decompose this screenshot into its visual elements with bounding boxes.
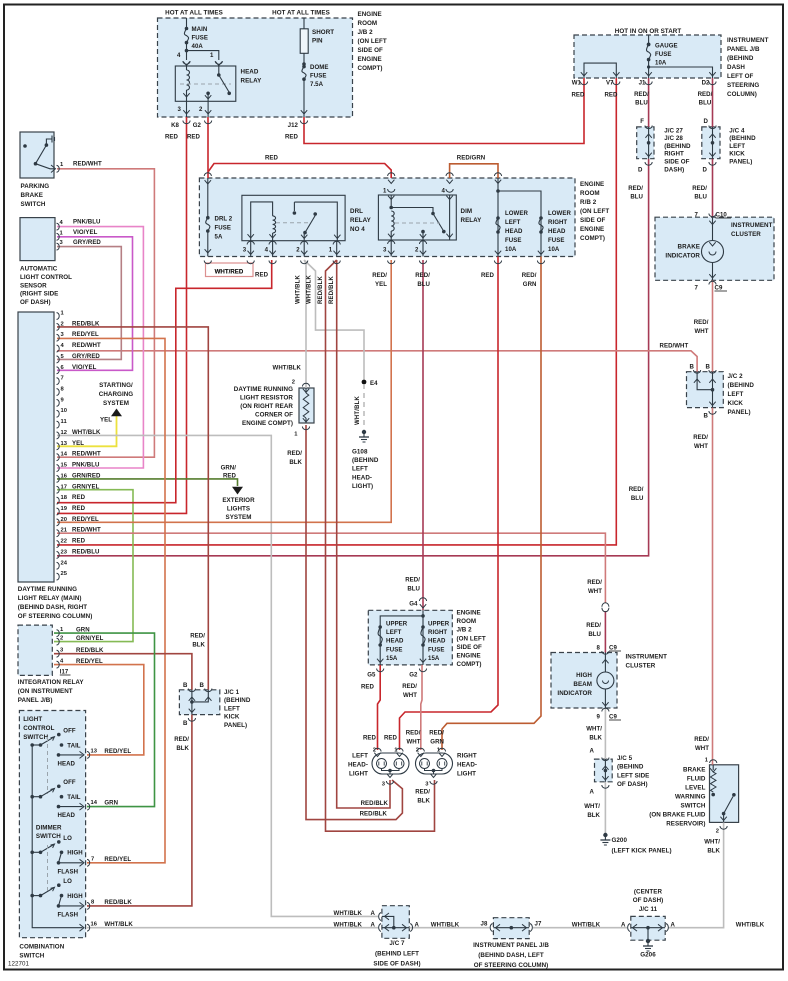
- svg-text:OFF: OFF: [63, 728, 76, 735]
- svg-text:G5: G5: [367, 672, 376, 679]
- DIM relay interior: [390, 195, 392, 208]
- inline connector on feed: [602, 603, 609, 607]
- svg-text:ENGINE: ENGINE: [358, 56, 382, 63]
- svg-text:2: 2: [61, 321, 64, 327]
- svg-text:RED/BLK: RED/BLK: [72, 320, 100, 327]
- wire WHT/BLK J/C 7 to instrument panel J/B J8: [409, 927, 489, 929]
- svg-text:BLU: BLU: [699, 100, 712, 107]
- svg-text:VIO/YEL: VIO/YEL: [73, 229, 98, 236]
- wire PNK/BLU sensor pin4 to pin 15: [57, 227, 143, 468]
- svg-text:RED: RED: [165, 134, 179, 141]
- svg-text:RED: RED: [604, 92, 618, 99]
- svg-text:A: A: [671, 922, 676, 929]
- J/C 27 J/C 28 internals: [645, 134, 651, 138]
- wire RED/BLK DRL relay pin 1 to left headlight pin 3: [337, 260, 390, 808]
- svg-text:1: 1: [329, 247, 333, 254]
- svg-text:BLU: BLU: [417, 281, 430, 288]
- wire RED lower left head fuse to left headlight pin 1: [400, 257, 499, 751]
- svg-text:FUSE: FUSE: [192, 35, 208, 42]
- wire YEL pin 13 to starting/charging arrow: [57, 411, 117, 446]
- svg-text:GRN/YEL: GRN/YEL: [72, 483, 100, 490]
- svg-text:RED/: RED/: [693, 434, 708, 441]
- svg-text:COMPT): COMPT): [580, 235, 605, 242]
- wire RED/BLK J/C 1 bottom to comb sw pin 8: [87, 715, 192, 906]
- wire WHT/BLK ground rail comb sw pin16 to J/C 7: [87, 927, 378, 929]
- svg-text:RED/: RED/: [634, 91, 649, 98]
- engine room J/B 2 box (lower): [368, 610, 452, 665]
- svg-text:PANEL J/B): PANEL J/B): [18, 697, 53, 704]
- svg-text:RED/: RED/: [629, 486, 644, 493]
- wire RED/YEL DIM relay pin 3 to pin 20: [57, 260, 391, 522]
- svg-text:20: 20: [61, 517, 68, 523]
- svg-text:WHT: WHT: [694, 328, 708, 335]
- svg-text:BLK: BLK: [192, 642, 205, 649]
- svg-text:SIDE OF: SIDE OF: [358, 47, 383, 54]
- svg-text:FUSE: FUSE: [548, 237, 564, 244]
- DRL relay bottom pins 3 4 2 1: [250, 241, 252, 257]
- svg-text:YEL: YEL: [100, 417, 112, 424]
- svg-text:40A: 40A: [192, 43, 204, 50]
- wire RED/BLK resistor pin1 to left headlight pin 3: [306, 425, 402, 820]
- svg-text:BRAKE: BRAKE: [678, 244, 700, 251]
- svg-text:B: B: [704, 413, 709, 420]
- svg-text:RED/WHT: RED/WHT: [72, 527, 101, 534]
- svg-text:OF DASH): OF DASH): [617, 781, 648, 788]
- svg-text:HEAD: HEAD: [505, 228, 523, 235]
- svg-text:J/B 2: J/B 2: [457, 627, 473, 634]
- svg-text:INSTRUMENT: INSTRUMENT: [727, 37, 769, 44]
- svg-text:1: 1: [210, 52, 214, 59]
- wire RED/BLU DIM relay pin 2 to G4: [422, 260, 424, 610]
- svg-text:RELAY: RELAY: [461, 217, 483, 224]
- svg-text:DRL 2: DRL 2: [215, 216, 233, 223]
- svg-text:RED/: RED/: [628, 185, 643, 192]
- svg-text:WARNING: WARNING: [675, 794, 706, 801]
- svg-text:RED/YEL: RED/YEL: [76, 658, 103, 665]
- svg-text:BRAKE: BRAKE: [683, 767, 705, 774]
- wire RED/BLU J1 through J/C 27/28 down to pin 23: [648, 78, 650, 127]
- automatic light control sensor box: [20, 218, 55, 261]
- svg-text:LIGHTS: LIGHTS: [227, 506, 250, 513]
- svg-text:RED: RED: [363, 735, 377, 742]
- svg-text:COMBINATION: COMBINATION: [19, 944, 64, 951]
- svg-text:GAUGE: GAUGE: [655, 43, 678, 50]
- svg-text:B: B: [200, 682, 205, 689]
- svg-text:LIGHT RELAY (MAIN): LIGHT RELAY (MAIN): [18, 595, 82, 602]
- svg-text:(ON LEFT: (ON LEFT: [580, 208, 609, 215]
- svg-text:(BEHIND: (BEHIND: [728, 382, 755, 389]
- svg-text:WHT/BLK: WHT/BLK: [307, 274, 313, 304]
- svg-text:INSTRUMENT PANEL J/B: INSTRUMENT PANEL J/B: [473, 942, 549, 949]
- DRL 2 FUSE 5A: [207, 178, 209, 218]
- svg-text:RED/: RED/: [415, 272, 430, 279]
- svg-text:BLK: BLK: [289, 459, 302, 466]
- svg-text:SENSOR: SENSOR: [20, 282, 47, 289]
- wire RED/YEL comb sw pin 7 up to pin 3: [57, 338, 165, 862]
- ground G108: [362, 430, 366, 434]
- svg-text:INDICATOR: INDICATOR: [665, 253, 700, 260]
- high beam indicator bulb: [604, 653, 606, 673]
- svg-text:HEAD: HEAD: [548, 228, 566, 235]
- svg-text:ROOM: ROOM: [580, 190, 600, 197]
- DIM relay bottom pins 3 2: [390, 240, 392, 257]
- svg-text:RED/BLU: RED/BLU: [72, 548, 100, 555]
- svg-text:RED/: RED/: [174, 736, 189, 743]
- svg-text:ENGINE: ENGINE: [580, 226, 604, 233]
- svg-text:24: 24: [61, 560, 68, 566]
- svg-text:J/C 11: J/C 11: [639, 906, 658, 913]
- head relay coil: [186, 66, 188, 70]
- upper right head fuse 15A: [421, 625, 425, 629]
- wire WHT/BLK high-beam cluster pin 9 to J/C 5: [604, 708, 606, 759]
- svg-text:INTEGRATION RELAY: INTEGRATION RELAY: [18, 679, 85, 686]
- svg-text:LEFT: LEFT: [352, 466, 368, 473]
- parking brake switch internals: [23, 144, 27, 148]
- svg-text:PANEL): PANEL): [224, 722, 247, 729]
- wire RED/WHT parking brake switch to pin 14: [57, 169, 154, 457]
- svg-text:14: 14: [61, 452, 68, 458]
- svg-text:LEFT SIDE: LEFT SIDE: [617, 772, 649, 779]
- svg-text:SWITCH: SWITCH: [19, 953, 44, 960]
- svg-text:13: 13: [91, 749, 98, 755]
- svg-text:G2: G2: [409, 672, 418, 679]
- svg-text:NO 4: NO 4: [350, 226, 365, 233]
- svg-text:C9: C9: [609, 645, 617, 652]
- svg-text:DASH: DASH: [727, 64, 745, 71]
- svg-text:J/B 2: J/B 2: [358, 29, 374, 36]
- wire K8 RED from head relay pin3 down to DRL main relay pin 19: [57, 117, 187, 513]
- svg-text:GRN: GRN: [430, 739, 444, 746]
- svg-text:LIGHT RESISTOR: LIGHT RESISTOR: [240, 395, 293, 402]
- svg-text:TAIL: TAIL: [67, 794, 81, 801]
- svg-text:RED/: RED/: [402, 683, 417, 690]
- svg-text:TAIL: TAIL: [67, 742, 81, 749]
- svg-text:SWITCH: SWITCH: [21, 201, 46, 208]
- J/C 2 internals: [694, 379, 700, 383]
- svg-text:FUSE: FUSE: [505, 237, 521, 244]
- svg-text:3: 3: [178, 106, 182, 113]
- svg-text:SHORT: SHORT: [312, 29, 334, 36]
- svg-text:LEFT: LEFT: [352, 753, 368, 760]
- svg-text:GRN/RED: GRN/RED: [72, 472, 101, 479]
- wire RED/BLK integration pin 3 to J/C 1 left pin: [54, 654, 192, 690]
- svg-text:14: 14: [91, 800, 98, 806]
- wire WHT/BLK brake fluid switch pin2 to J/C 11: [669, 822, 724, 927]
- svg-text:4: 4: [442, 188, 446, 195]
- svg-text:GRY/RED: GRY/RED: [72, 353, 100, 360]
- svg-text:WHT: WHT: [694, 443, 708, 450]
- DRL relay no 4 rect: [242, 195, 345, 240]
- svg-text:BLU: BLU: [588, 631, 601, 638]
- svg-text:GRN: GRN: [523, 281, 537, 288]
- svg-text:7.5A: 7.5A: [310, 81, 324, 88]
- feed to D2: [649, 67, 713, 78]
- wire RED/BLK main pin 2 down to J/C 1 right pin: [57, 327, 208, 690]
- svg-text:J/C 4: J/C 4: [729, 127, 745, 134]
- svg-text:V7: V7: [606, 80, 614, 87]
- wire WHT/BLK J/C 5 to G200: [604, 782, 606, 833]
- svg-text:PNK/BLU: PNK/BLU: [73, 219, 101, 226]
- sensor pins 4 1 3: [57, 223, 60, 230]
- main fuse 40A: [186, 18, 188, 29]
- svg-text:HEAD: HEAD: [58, 812, 76, 819]
- svg-text:WHT/: WHT/: [704, 839, 720, 846]
- ground G200: [603, 833, 607, 837]
- svg-text:B: B: [706, 363, 711, 370]
- svg-text:R/B 2: R/B 2: [580, 199, 597, 206]
- svg-text:(BEHIND: (BEHIND: [727, 55, 754, 62]
- svg-text:HEAD: HEAD: [386, 638, 404, 645]
- svg-text:FLASH: FLASH: [58, 911, 79, 918]
- svg-text:DAYTIME RUNNING: DAYTIME RUNNING: [18, 586, 77, 593]
- svg-text:A: A: [590, 748, 595, 755]
- mechanical dashed links: [47, 737, 49, 794]
- svg-text:MAIN: MAIN: [192, 26, 208, 33]
- wire VIO/YEL sensor pin1 to pin 6: [57, 237, 133, 370]
- wire RED DRL relay pin4 to pin 18: [57, 260, 272, 503]
- svg-text:FUSE: FUSE: [386, 646, 402, 653]
- svg-text:RED/: RED/: [587, 579, 602, 586]
- svg-text:DOME: DOME: [310, 64, 328, 71]
- svg-text:G2: G2: [193, 122, 202, 129]
- J/C 1 box: [179, 690, 219, 715]
- svg-text:LIGHT): LIGHT): [352, 483, 373, 490]
- svg-text:J/C 7: J/C 7: [389, 940, 405, 947]
- svg-text:16: 16: [61, 473, 68, 479]
- svg-text:GRN/YEL: GRN/YEL: [76, 635, 104, 642]
- svg-text:15A: 15A: [386, 655, 398, 662]
- svg-text:WHT/BLK: WHT/BLK: [72, 429, 101, 436]
- svg-text:(BEHIND DASH, LEFT: (BEHIND DASH, LEFT: [478, 952, 544, 959]
- svg-text:19: 19: [61, 506, 68, 512]
- svg-text:LEFT: LEFT: [505, 219, 521, 226]
- svg-text:GRN: GRN: [76, 627, 90, 634]
- svg-text:F: F: [640, 118, 644, 125]
- lower head fuses feed: [495, 180, 501, 184]
- svg-text:LEFT: LEFT: [728, 391, 744, 398]
- svg-text:(RIGHT SIDE: (RIGHT SIDE: [20, 291, 58, 298]
- svg-text:J/C 5: J/C 5: [617, 755, 633, 762]
- instrument panel J/B box (bottom): [493, 918, 529, 939]
- wire RED/WHT pin 21 to high beam feed: [57, 533, 605, 603]
- svg-text:RIGHT: RIGHT: [664, 151, 684, 158]
- wire RED/BLU J/C4 to brake indicator: [712, 159, 714, 218]
- svg-text:RED: RED: [571, 92, 585, 99]
- svg-text:RIGHT: RIGHT: [457, 753, 477, 760]
- svg-text:RED/: RED/: [698, 91, 713, 98]
- svg-text:PIN: PIN: [312, 38, 323, 45]
- svg-text:BEAM: BEAM: [573, 681, 592, 688]
- svg-text:RED/: RED/: [406, 730, 421, 737]
- svg-text:STEERING: STEERING: [727, 82, 759, 89]
- svg-text:RED: RED: [72, 505, 86, 512]
- svg-text:SWITCH: SWITCH: [23, 734, 48, 741]
- daytime running light resistor box: [299, 388, 314, 423]
- dimmer switch contacts (lower, pin 8): [30, 894, 34, 898]
- svg-text:HOT AT ALL TIMES: HOT AT ALL TIMES: [165, 10, 223, 17]
- instrument cluster box (brake indicator): [655, 217, 774, 280]
- instrument panel J/B box (top right): [574, 35, 721, 78]
- svg-text:LEFT: LEFT: [386, 629, 402, 636]
- svg-text:J/C 1: J/C 1: [224, 689, 240, 696]
- svg-text:OF STEERING COLUMN): OF STEERING COLUMN): [474, 962, 549, 969]
- svg-text:RED/: RED/: [586, 622, 601, 629]
- wire RED/WHT J/C2 down to brake fluid switch pin 1: [712, 408, 714, 765]
- svg-text:GRY/RED: GRY/RED: [73, 239, 101, 246]
- svg-text:LEFT OF: LEFT OF: [727, 73, 754, 80]
- svg-text:RED: RED: [384, 735, 398, 742]
- svg-text:RED/BLK: RED/BLK: [318, 275, 324, 304]
- J/C 7 box: [382, 906, 409, 939]
- svg-text:2: 2: [292, 380, 295, 386]
- svg-text:HIGH: HIGH: [67, 893, 82, 900]
- svg-text:RED/GRN: RED/GRN: [457, 155, 485, 162]
- svg-text:RED/: RED/: [415, 789, 430, 796]
- svg-text:RED/BLK: RED/BLK: [76, 647, 104, 654]
- wire GRN comb sw pin 14 to integration pin 1: [54, 633, 155, 807]
- wire RED/WHT G2 to right headlight pin 2: [421, 665, 422, 750]
- svg-text:SIDE OF: SIDE OF: [664, 159, 689, 166]
- svg-text:WHT/BLK: WHT/BLK: [334, 922, 363, 929]
- svg-text:15A: 15A: [428, 655, 440, 662]
- svg-text:16: 16: [91, 921, 98, 927]
- svg-text:BLK: BLK: [589, 735, 602, 742]
- svg-text:J7: J7: [535, 921, 542, 928]
- svg-text:J8: J8: [481, 921, 488, 928]
- svg-text:J/C 2: J/C 2: [728, 373, 744, 380]
- head relay switch: [218, 66, 220, 74]
- svg-text:ENGINE: ENGINE: [457, 610, 481, 617]
- svg-text:CLUSTER: CLUSTER: [626, 663, 656, 670]
- svg-text:RED/YEL: RED/YEL: [72, 516, 99, 523]
- svg-text:RED/: RED/: [692, 185, 707, 192]
- wire RED/YEL integration pin 4 to comb sw pin 13: [54, 665, 144, 755]
- svg-text:UPPER: UPPER: [428, 621, 450, 628]
- svg-text:CORNER OF: CORNER OF: [255, 412, 293, 419]
- svg-text:7: 7: [695, 212, 699, 219]
- svg-text:WHT: WHT: [695, 745, 709, 752]
- svg-text:PARKING: PARKING: [21, 183, 50, 190]
- svg-text:2: 2: [716, 829, 719, 835]
- svg-text:RELAY: RELAY: [241, 78, 263, 85]
- svg-text:PNK/BLU: PNK/BLU: [72, 462, 100, 469]
- svg-text:RED/YEL: RED/YEL: [104, 856, 131, 863]
- svg-text:10: 10: [61, 408, 68, 414]
- svg-text:B: B: [690, 363, 695, 370]
- svg-text:4: 4: [177, 52, 181, 59]
- svg-text:A: A: [371, 910, 376, 917]
- light control switch contacts (lower, pin 14): [30, 795, 34, 799]
- svg-text:LOWER: LOWER: [505, 210, 528, 217]
- svg-text:13: 13: [61, 441, 68, 447]
- svg-text:RED/BLK: RED/BLK: [360, 811, 388, 818]
- svg-text:RED/: RED/: [190, 633, 205, 640]
- svg-text:GRN/: GRN/: [221, 465, 237, 472]
- svg-text:B: B: [183, 720, 188, 727]
- svg-text:ENGINE: ENGINE: [358, 11, 382, 18]
- wire RED/WHT pin 4 trunk to J/C 2: [57, 351, 697, 372]
- svg-text:G4: G4: [409, 601, 418, 608]
- lower left head fuse 10A: [496, 216, 500, 220]
- svg-text:RED/: RED/: [429, 730, 444, 737]
- svg-text:SYSTEM: SYSTEM: [226, 514, 252, 521]
- svg-text:(ON BRAKE FLUID: (ON BRAKE FLUID: [649, 812, 706, 819]
- svg-text:HEAD-: HEAD-: [352, 474, 372, 481]
- svg-text:DIMMER: DIMMER: [36, 825, 62, 832]
- svg-text:YEL: YEL: [72, 440, 84, 447]
- wire RED G5 to left headlight pin 2: [378, 665, 381, 750]
- J/C 11 box: [631, 916, 665, 940]
- svg-text:HEAD: HEAD: [58, 760, 76, 767]
- svg-text:RED: RED: [72, 538, 86, 545]
- svg-text:BLU: BLU: [635, 100, 648, 107]
- svg-text:G200: G200: [612, 837, 628, 844]
- svg-text:RESERVOIR): RESERVOIR): [666, 821, 705, 828]
- svg-text:A: A: [621, 922, 626, 929]
- integration relay pins: [57, 630, 60, 637]
- engine room R/B 2 box: [199, 178, 575, 257]
- wire WHT/BLK pin 12 to J/C 7 upper pin: [57, 435, 378, 916]
- DIM relay top pins 1 and 4: [388, 180, 394, 184]
- svg-text:J12: J12: [288, 122, 299, 129]
- gauge fuse 10A: [648, 35, 650, 44]
- svg-text:WHT/BLK: WHT/BLK: [355, 395, 361, 425]
- svg-text:10A: 10A: [655, 60, 667, 67]
- svg-text:DAYTIME RUNNING: DAYTIME RUNNING: [234, 386, 293, 393]
- combination switch box: [19, 711, 85, 938]
- svg-text:J/C 28: J/C 28: [664, 135, 683, 142]
- svg-text:5A: 5A: [215, 234, 223, 241]
- svg-text:DASH): DASH): [664, 166, 684, 173]
- svg-text:PANEL): PANEL): [728, 409, 751, 416]
- svg-text:LEFT: LEFT: [224, 705, 240, 712]
- svg-text:RED/BLK: RED/BLK: [329, 275, 335, 304]
- svg-text:RED/: RED/: [694, 736, 709, 743]
- svg-text:A: A: [415, 922, 420, 929]
- svg-text:OF DASH): OF DASH): [20, 299, 51, 306]
- svg-text:RED: RED: [223, 473, 237, 480]
- svg-text:CLUSTER: CLUSTER: [731, 231, 761, 238]
- wire RED V7 down to DRL main relay pin 22: [57, 78, 616, 545]
- svg-text:WHT/BLK: WHT/BLK: [736, 922, 765, 929]
- head relay rect U1: [175, 66, 236, 101]
- svg-text:D: D: [638, 167, 643, 174]
- svg-text:WHT/BLK: WHT/BLK: [334, 910, 363, 917]
- svg-text:FUSE: FUSE: [655, 51, 671, 58]
- svg-text:DRL: DRL: [350, 208, 363, 215]
- wire GRN/RED pin 16 to exterior lights arrow: [57, 479, 238, 486]
- svg-text:FUSE: FUSE: [310, 73, 326, 80]
- svg-text:COLUMN): COLUMN): [727, 91, 757, 98]
- svg-text:RED: RED: [255, 272, 269, 279]
- svg-text:WHT/BLK: WHT/BLK: [273, 365, 302, 372]
- svg-text:ENGINE: ENGINE: [457, 653, 481, 660]
- svg-text:(BEHIND: (BEHIND: [617, 764, 644, 771]
- DRL relay interior: switch: [294, 202, 337, 241]
- svg-text:(ON LEFT: (ON LEFT: [457, 635, 486, 642]
- svg-text:RED/WHT: RED/WHT: [73, 161, 102, 168]
- svg-text:OF DASH): OF DASH): [633, 897, 664, 904]
- lower right head fuse 10A: [539, 216, 543, 220]
- svg-text:FLASH: FLASH: [58, 868, 79, 875]
- svg-text:FUSE: FUSE: [215, 225, 231, 232]
- node E4: [362, 380, 367, 385]
- svg-text:WHT/RED: WHT/RED: [215, 268, 244, 275]
- svg-text:(BEHIND DASH, RIGHT: (BEHIND DASH, RIGHT: [18, 604, 87, 611]
- svg-text:17: 17: [61, 484, 68, 490]
- svg-text:WHT: WHT: [406, 739, 420, 746]
- svg-text:HIGH: HIGH: [67, 850, 82, 857]
